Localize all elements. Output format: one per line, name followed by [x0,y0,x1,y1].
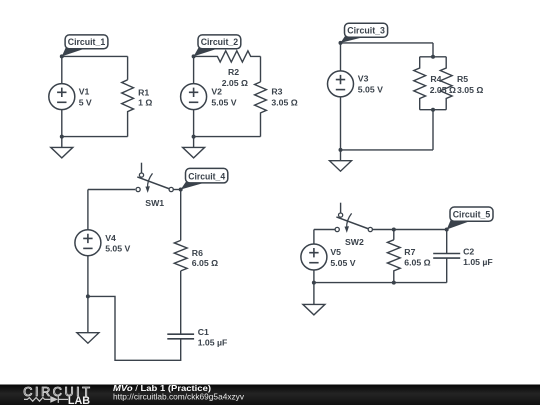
wire: R1 top lead [127,56,129,79]
wire: V4 top lead [87,190,89,230]
svg-text:Circuit_5: Circuit_5 [453,209,491,220]
svg-text:R2: R2 [228,67,239,77]
svg-text:Circuit_3: Circuit_3 [347,25,385,36]
svg-text:Circuit_4: Circuit_4 [188,170,226,181]
wire: SW2 pivot to C2 corner [372,229,446,231]
wire: Circuit_2 bottom [194,136,261,138]
resistor R5 [440,57,452,110]
svg-text:V4: V4 [105,233,116,243]
wire: C1 to ground node (L path) [88,296,181,360]
svg-text:3.05 Ω: 3.05 Ω [271,98,297,108]
resistor R7 [387,240,400,283]
voltage source V4 [75,230,101,256]
wire: V4 bottom lead [87,256,89,297]
svg-text:R1: R1 [138,87,149,97]
wire: Circuit_3 right down [432,110,434,150]
node: R7 top junction [392,228,396,232]
voltage source V5 [301,244,327,270]
svg-text:3.05 Ω: 3.05 Ω [457,85,483,95]
switch SW2 (SPDT) [335,203,372,233]
wire: Circuit_1 top, node A to R1 [62,55,128,57]
svg-text:5.05 V: 5.05 V [105,244,130,254]
wire: V1 bottom lead [61,110,63,137]
svg-text:2.05 Ω: 2.05 Ω [430,85,456,95]
net label Circuit_4 [179,168,228,191]
ground (Circuit_2) [183,137,205,158]
capacitor C1 [167,334,194,339]
resistor R3 [255,82,267,137]
wire: R6 to C1 [180,271,182,334]
svg-text:1.05 µF: 1.05 µF [463,257,493,267]
node: Circuit_4 ground junction [86,294,90,298]
svg-text:LAB: LAB [68,395,90,405]
net label Circuit_1 [60,35,108,59]
svg-text:SW1: SW1 [145,198,164,208]
svg-text:1.05 µF: 1.05 µF [198,338,228,348]
ground (Circuit_1) [51,137,73,158]
node: Circuit_5 ground junction [312,281,316,285]
wire: parallel top rail [420,56,447,58]
svg-text:5.05 V: 5.05 V [330,258,355,268]
wire: V1 top lead [61,56,63,83]
wire: down to R6 [180,190,182,241]
node: R4/R5 top junction [431,55,435,59]
net label Circuit_3 [339,23,388,45]
resistor R1 [122,80,134,137]
CircuitLab logo schematic squiggle (resistor + diode) [24,396,68,403]
svg-text:R7: R7 [404,247,415,257]
wire: R7 top lead [393,230,395,240]
wire: V5 to SW2 left throw [314,229,335,231]
svg-text:R5: R5 [457,74,468,84]
svg-text:Circuit_2: Circuit_2 [201,36,238,47]
svg-text:C1: C1 [198,327,209,337]
switch SW1 (SPDT) [136,163,173,193]
wire: V3 top lead [340,43,342,71]
svg-text:V3: V3 [358,73,369,83]
wire: V5 bottom lead [313,270,315,283]
svg-text:6.05 Ω: 6.05 Ω [404,257,430,267]
ground (Circuit_5) [303,283,325,315]
wire: Circuit_3 bottom [341,149,434,151]
svg-text:http://circuitlab.com/ckk69g5a: http://circuitlab.com/ckk69g5a4xzyv [113,392,245,402]
node: Circuit_3 ground junction [339,148,343,152]
wire: Circuit_1 bottom [62,136,128,138]
svg-text:V2: V2 [211,87,222,97]
wire: Circuit_3 top [341,42,434,44]
svg-text:Circuit_1: Circuit_1 [68,36,105,47]
svg-text:R6: R6 [192,248,203,258]
svg-text:5.05 V: 5.05 V [358,84,383,94]
svg-text:5.05 V: 5.05 V [211,97,236,107]
node: Circuit_1 ground junction [60,135,64,139]
svg-text:SW2: SW2 [345,237,364,247]
node: R7 bottom junction [392,281,396,285]
wire: SW1 pivot to corner [173,189,181,191]
net label Circuit_5 [445,207,493,232]
wire: down to parallel pair [432,43,434,57]
wire: R3 top lead [260,56,262,82]
wire: Circuit_5 bottom [314,282,447,284]
net label Circuit_2 [192,35,241,59]
svg-text:C2: C2 [463,246,474,256]
svg-text:V5: V5 [330,247,341,257]
footer bar [0,385,540,406]
resistor R2 [194,51,261,62]
capacitor C2 [433,254,460,259]
svg-text:V1: V1 [79,87,90,97]
wire: V3 bottom lead [340,97,342,150]
wire: V2 bottom lead [193,110,195,137]
wire: V2 top lead [193,56,195,83]
resistor R6 [174,240,187,271]
voltage source V2 [181,84,207,110]
node: Circuit_2 ground junction [192,135,196,139]
wire: C2 top lead [446,230,448,254]
wire: C2 bottom lead [446,258,448,283]
svg-text:1 Ω: 1 Ω [138,98,152,108]
voltage source V1 [49,84,75,110]
resistor R4 [414,57,426,110]
svg-text:R3: R3 [271,86,282,96]
svg-text:6.05 Ω: 6.05 Ω [192,258,218,268]
wire: V4 to SW1 left throw [88,189,135,191]
wire: parallel bottom rail [420,109,447,111]
svg-text:2.05 Ω: 2.05 Ω [222,78,248,88]
ground (Circuit_3) [330,150,352,171]
wire: V5 top lead [313,230,315,245]
svg-text:R4: R4 [430,74,441,84]
svg-text:5 V: 5 V [79,97,92,107]
node: R4/R5 bottom junction [431,108,435,112]
voltage source V3 [328,71,354,97]
ground (Circuit_4) [77,296,99,343]
